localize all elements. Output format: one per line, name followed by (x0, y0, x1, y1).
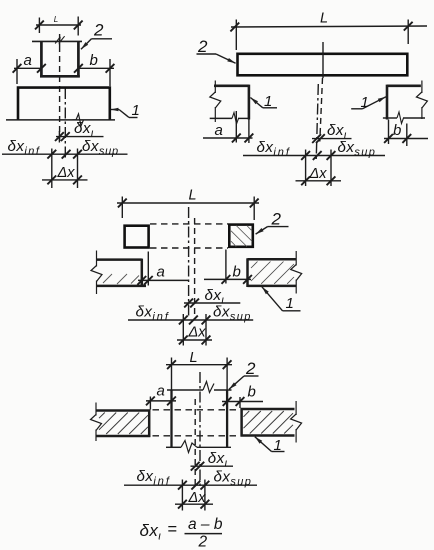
fig4 limit verticals (182, 480, 205, 511)
fig1 dimension b label (90, 52, 98, 69)
fig3 beam 2 left end square (125, 226, 149, 248)
svg-text:Δx: Δx (57, 165, 76, 181)
fig4 dimension L label (190, 350, 198, 366)
fig4 left wall break line (91, 403, 102, 442)
svg-text:δxinf: δxinf (257, 139, 291, 159)
fig4 deltaX-l dimension (191, 462, 234, 471)
fig1 deltaX-l dimension (55, 131, 104, 143)
fig1 label 1 (132, 102, 140, 119)
fig4 right wall block 1 outline (241, 408, 295, 437)
fig1 deltaX-sup label (82, 138, 119, 158)
fig4 dimension b label (248, 384, 256, 401)
fig1 limit verticals (52, 149, 78, 189)
fig3 deltaX-sup label (213, 303, 252, 323)
fig3 dimension a line (137, 252, 189, 286)
fig4 column bottom break line (166, 441, 231, 453)
fig4 column axis (194, 399, 196, 487)
fig2 label 2 (197, 37, 208, 56)
svg-text:=: = (168, 521, 178, 539)
fig1 dimension a line (13, 59, 46, 84)
fig1 dimension L line (35, 17, 83, 36)
fig2 DeltaX dimension (296, 176, 342, 185)
fig3 left block light hatching (103, 274, 139, 284)
fig4 dimension a line (146, 397, 176, 410)
fig2 dimension L line (230, 20, 427, 51)
svg-text:2: 2 (198, 534, 208, 550)
fig2 deltaX-l dimension (312, 134, 352, 143)
fig2 right support 1 left edge (386, 85, 389, 120)
fig3 right block 1 top edge (248, 258, 297, 261)
fig3 DeltaX dimension (177, 336, 212, 345)
fig2 right label 1 leader (351, 97, 386, 109)
fig2 left label 1 leader (250, 98, 277, 108)
fig1 DeltaX label (57, 165, 76, 181)
fig2 inf-sup line (243, 151, 385, 160)
fig2 dimension a label (215, 122, 223, 139)
fig1 deltaX-inf label (8, 138, 41, 158)
fig2 right support bottom line (383, 112, 425, 124)
svg-text:2: 2 (245, 359, 256, 378)
fig4 dimension a label (157, 383, 165, 400)
fig2 right label 1 (361, 94, 369, 111)
fig4 dimension b line (222, 397, 263, 408)
svg-text:δxι: δxι (140, 521, 162, 543)
svg-text:L: L (189, 188, 197, 204)
fig3 beam axis (194, 218, 196, 318)
fig2 deltaX-sup label (338, 139, 377, 159)
fig1 foundation axis (64, 88, 66, 160)
fig2 right support break line (416, 81, 427, 120)
fig3 beam hidden edges (150, 224, 228, 248)
fig2 limit verticals (306, 150, 331, 187)
fig2 dimension b line (384, 120, 428, 147)
fig4 label 2 (245, 359, 256, 378)
fig3 left block break line (91, 251, 102, 295)
fig2 support axis (316, 84, 318, 160)
fig3 dimension L label (189, 188, 197, 204)
fig1 dimension a label (24, 52, 32, 69)
svg-text:1: 1 (274, 437, 282, 454)
fig3 DeltaX label (188, 325, 207, 341)
fig2 dimension L label (320, 11, 328, 27)
fig3 beam 2 right end square (229, 225, 253, 247)
fig4 label 2 leader (229, 376, 259, 389)
svg-text:1: 1 (361, 94, 369, 111)
fig4 dimension L line (166, 358, 232, 391)
svg-text:Δx: Δx (309, 166, 328, 182)
svg-text:δxι: δxι (74, 120, 94, 140)
fig1 column 2 top edge (32, 40, 82, 42)
fig4 DeltaX dimension (175, 500, 213, 509)
fig3 right block hatching (251, 262, 294, 284)
fig4 wall axis (199, 372, 201, 489)
fig3 label 1 leader (262, 287, 301, 311)
fig4 inf-sup line (124, 481, 257, 490)
svg-text:δxsup: δxsup (338, 139, 377, 159)
fig1 column 2 bottom edge (40, 75, 80, 78)
fig3 label 2 leader (256, 227, 289, 235)
svg-text:δxinf: δxinf (136, 303, 170, 323)
fig4 label 1 leader (255, 437, 285, 452)
svg-text:1: 1 (264, 93, 272, 110)
fig3 right block break line (291, 251, 302, 294)
svg-text:b: b (248, 384, 256, 401)
fig3 dimension b label (233, 264, 241, 281)
fig4 left wall block 1 outline (97, 410, 151, 438)
fig4 right wall block hatching (244, 411, 294, 434)
fig2 right support 1 top edge (387, 85, 421, 88)
fig3 beam 2 right end hatching (231, 226, 252, 247)
fig1 DeltaX dimension (42, 176, 88, 185)
svg-text:1: 1 (286, 295, 294, 312)
fig1 dimension b line (74, 59, 114, 86)
fig3 right block 1 left edge (246, 258, 249, 287)
svg-text:2: 2 (197, 37, 208, 56)
svg-text:1: 1 (132, 102, 140, 119)
fig1 inf-sup line (2, 150, 128, 159)
fig3 dimension L line (117, 197, 259, 221)
fig2 deltaX-l label (327, 122, 347, 142)
svg-text:δxsup: δxsup (213, 303, 252, 323)
fig2 beam axis (320, 42, 323, 142)
svg-text:δxsup: δxsup (82, 138, 119, 158)
fig3 nominal axis (188, 207, 190, 318)
fig1 foundation 1 outline (18, 88, 110, 120)
fig2 left label 1 (264, 93, 272, 110)
fig2 deltaX-inf label (257, 139, 291, 159)
fig1 column 2 axis with break (55, 34, 64, 141)
svg-text:L: L (54, 15, 58, 24)
fig4 left wall block hatching (99, 413, 148, 435)
fig3 left block 1 top edge (97, 258, 142, 261)
svg-text:b: b (233, 264, 241, 281)
fig3 label 1 (286, 295, 294, 312)
fig4 right wall break line (291, 401, 302, 443)
fig3 right block 1 bottom edge (248, 285, 297, 288)
fig3 inf-sup line (128, 316, 253, 325)
fig3 deltaX-l label (205, 287, 225, 307)
fig3 deltaX-inf label (136, 303, 170, 323)
fig3 deltaX-l dimension (184, 299, 240, 308)
fig4 DeltaX label (188, 490, 207, 506)
fig1 column 2 right side (77, 41, 80, 77)
svg-text:L: L (190, 350, 198, 366)
fig2 left support 1 top edge (214, 85, 249, 88)
fig3 left block 1 bottom edge (97, 285, 147, 288)
svg-text:a: a (157, 383, 165, 400)
fig1 ground line (6, 119, 115, 121)
fig2 DeltaX label (309, 166, 328, 182)
svg-text:2: 2 (271, 210, 282, 229)
svg-text:2: 2 (93, 21, 104, 40)
svg-text:δxinf: δxinf (8, 138, 41, 158)
fig1 label 2 (93, 21, 104, 40)
svg-text:a: a (157, 264, 165, 281)
fig4 wall hidden edges (153, 410, 240, 436)
fig4 column 2 right side (226, 390, 228, 447)
fig3 dimension a label (157, 264, 165, 281)
svg-text:δxinf: δxinf (137, 468, 171, 488)
svg-text:δxsup: δxsup (214, 468, 253, 488)
svg-text:b: b (90, 52, 98, 69)
svg-text:L: L (320, 11, 328, 27)
fig1 label 2 leader (81, 39, 112, 50)
fig2 left support 1 right edge (248, 85, 251, 120)
svg-text:a: a (24, 52, 32, 69)
fig3 label 2 (271, 210, 282, 229)
fig1 column 2 left side (40, 41, 43, 77)
svg-text:Δx: Δx (188, 325, 207, 341)
fig1 deltaX-l label (74, 120, 94, 140)
fig1 label 1 leader (111, 108, 138, 118)
fig2 dimension a line (203, 111, 253, 143)
svg-text:a – b: a – b (188, 516, 223, 533)
fig2 beam 2 outline (238, 54, 408, 76)
fig2 left support bottom line (210, 113, 250, 125)
fig4 deltaX-inf label (137, 468, 171, 488)
fig2 label 2 leader (197, 54, 236, 63)
fig4 column 2 left side (170, 390, 172, 447)
fig2 dimension b label (393, 122, 401, 139)
formula deltaX-l = (a-b)/2 (140, 516, 223, 550)
svg-text:δxι: δxι (208, 450, 228, 470)
svg-text:Δx: Δx (188, 490, 207, 506)
fig4 column 2 top edge with break (167, 382, 232, 393)
fig1 dimension L label (54, 15, 58, 24)
fig4 deltaX-sup label (214, 468, 253, 488)
svg-text:a: a (215, 122, 223, 139)
fig3 limit verticals (183, 314, 206, 346)
svg-text:b: b (393, 122, 401, 139)
fig4 label 1 (274, 437, 282, 454)
fig3 left block 1 right edge (141, 259, 144, 287)
fig2 left support break line (210, 81, 221, 123)
fig3 dimension b line (204, 250, 252, 284)
fig4 deltaX-l label (208, 450, 228, 470)
fig1 baseline break mark (73, 114, 84, 126)
